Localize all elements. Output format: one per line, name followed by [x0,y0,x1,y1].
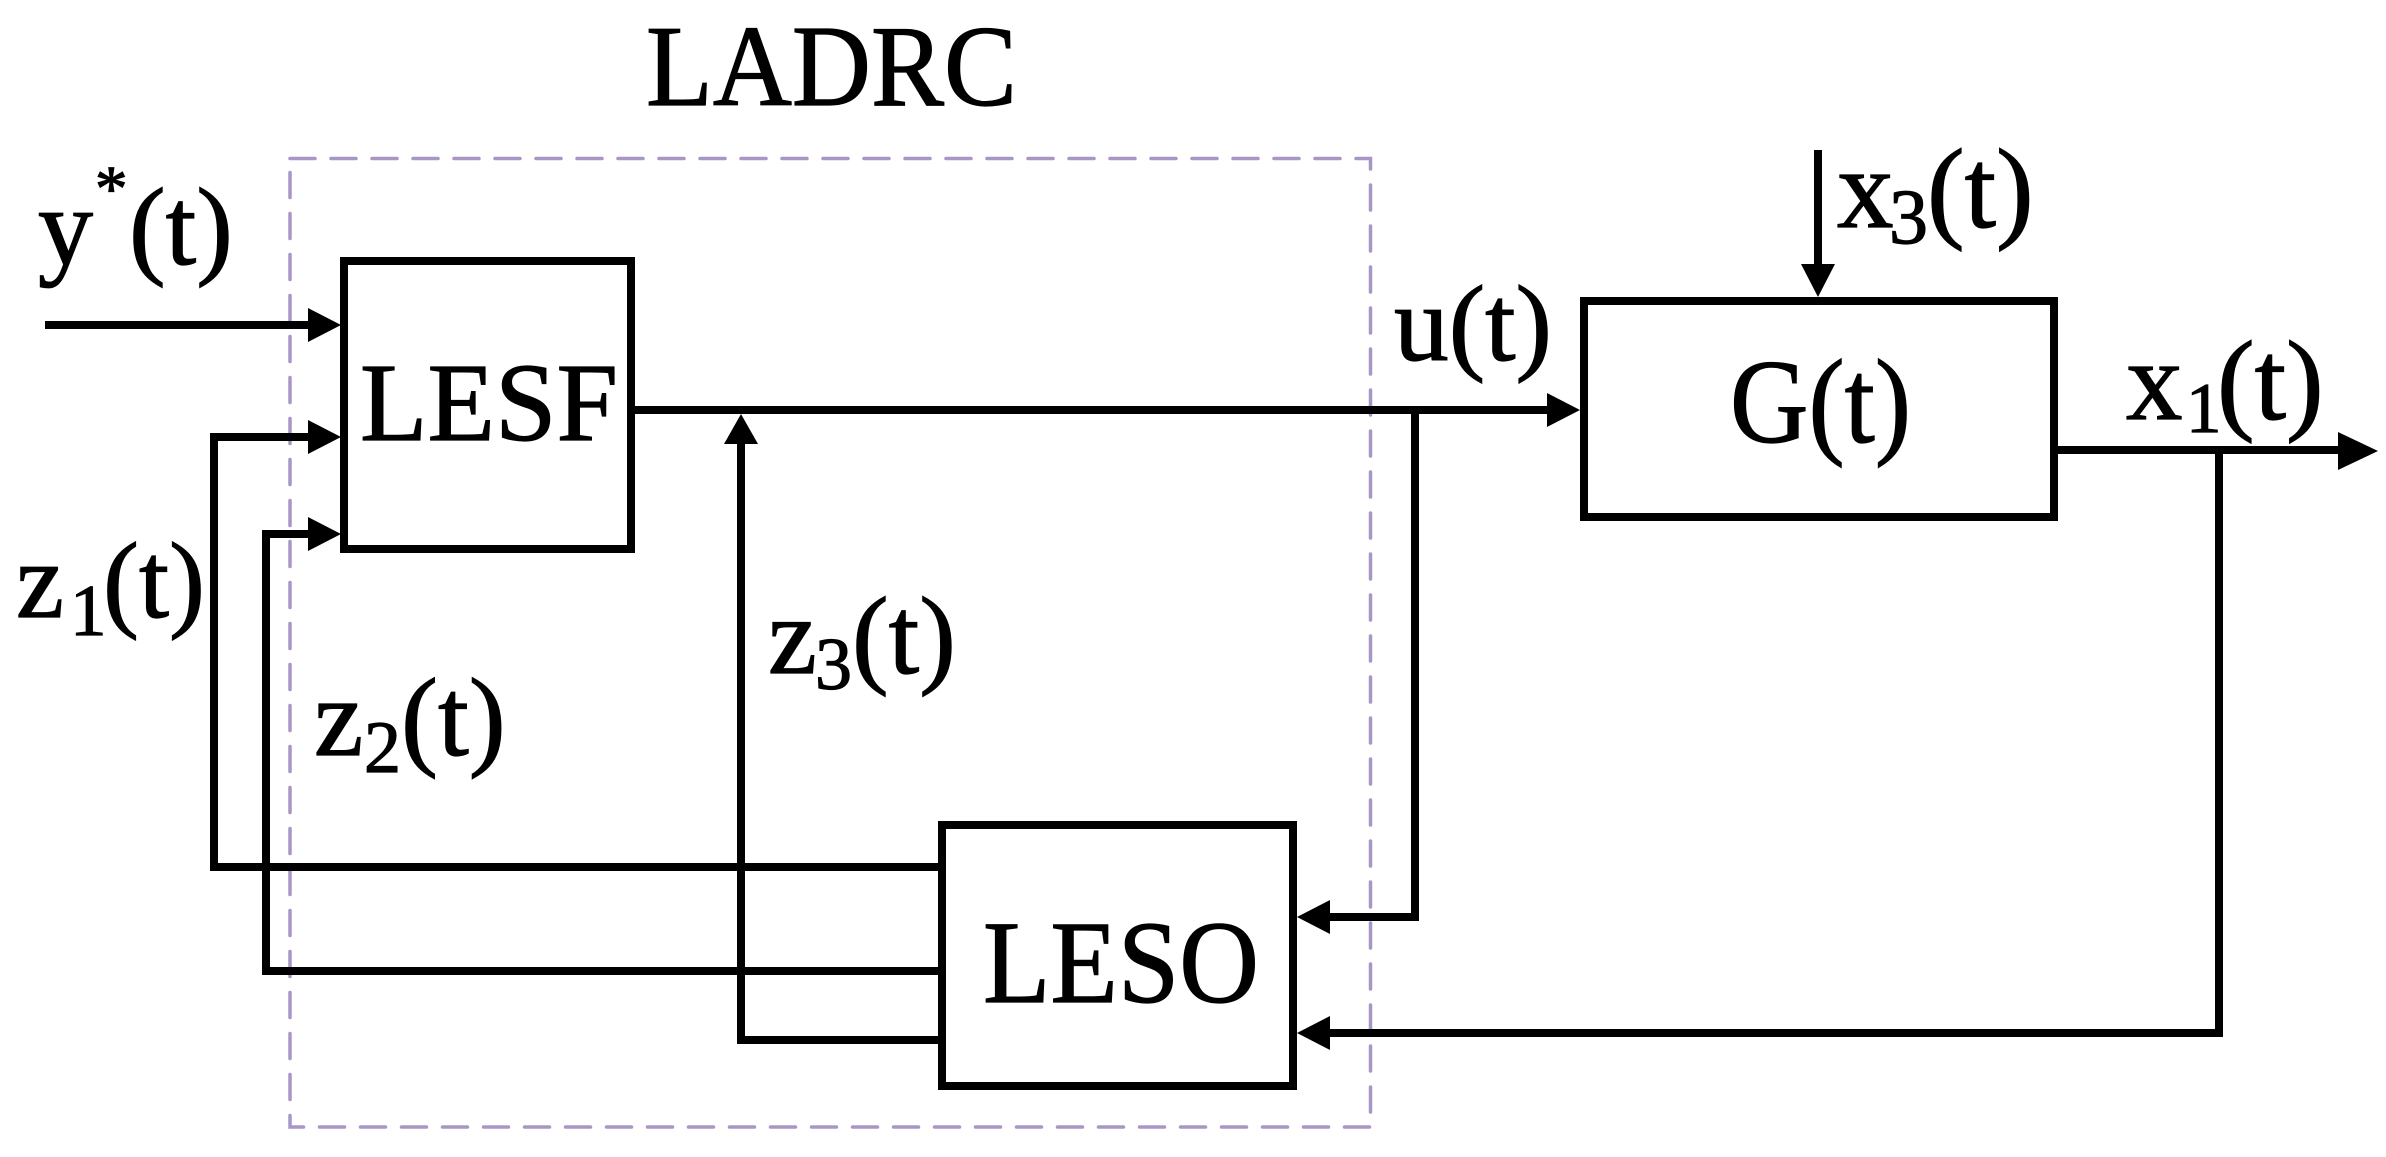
svg-text:y: y [38,166,93,288]
svg-text:x: x [1837,127,1894,252]
svg-text:1: 1 [70,570,107,651]
svg-text:x: x [2126,319,2183,444]
svg-text:(t): (t) [2217,319,2324,444]
svg-text:LESO: LESO [983,897,1259,1028]
svg-text:(t): (t) [129,166,233,288]
svg-text:z: z [314,657,363,780]
svg-text:2: 2 [364,707,401,789]
svg-text:(t): (t) [103,522,205,641]
svg-text:G(t): G(t) [1730,335,1911,468]
svg-text:u(t): u(t) [1394,265,1552,384]
svg-text:z: z [768,575,817,697]
svg-text:3: 3 [1889,173,1928,260]
svg-text:*: * [95,153,128,225]
svg-text:z: z [16,522,64,641]
svg-text:LESF: LESF [360,342,618,465]
svg-text:(t): (t) [401,657,506,780]
svg-text:LADRC: LADRC [646,3,1017,130]
svg-text:(t): (t) [1927,127,2034,252]
svg-text:3: 3 [815,624,852,706]
svg-text:(t): (t) [852,575,956,697]
